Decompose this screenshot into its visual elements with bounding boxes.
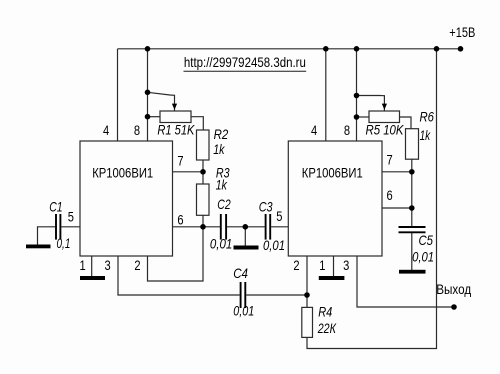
svg-text:+15В: +15В (449, 24, 475, 40)
node R1 left (145, 114, 151, 120)
wire R4 bottom to +15V riser (307, 49, 437, 349)
svg-text:3: 3 (105, 257, 111, 273)
wire R6 bottom lead / pin7 to pin6 node to C5 (411, 159, 413, 226)
wire IC2 pin3 to output (357, 256, 454, 307)
resistor R2 1k (197, 126, 229, 160)
svg-text:7: 7 (177, 153, 183, 169)
svg-text:R1 51K: R1 51K (157, 122, 195, 138)
svg-text:R6: R6 (420, 109, 435, 125)
wire IC1 pin3 to C4 (118, 256, 240, 295)
svg-text:2: 2 (293, 257, 299, 273)
svg-text:0,1: 0,1 (57, 235, 71, 251)
svg-text:6: 6 (387, 187, 393, 203)
node C4 R4 pin2 (304, 292, 310, 298)
wire C5 bottom to ground (411, 233, 413, 271)
wire C1 to ground (38, 227, 56, 245)
svg-text:0,01: 0,01 (263, 237, 285, 253)
svg-text:8: 8 (134, 122, 140, 138)
wire IC1 pin5 to C1 (61, 226, 80, 228)
wire IC1 pin8 to rail (147, 49, 149, 141)
node output terminal (451, 304, 457, 310)
wire C2 to C3 (227, 226, 265, 228)
svg-text:1k: 1k (213, 141, 225, 157)
wire IC1 pin7 (173, 171, 204, 173)
svg-text:0,01: 0,01 (210, 235, 232, 251)
svg-text:C2: C2 (217, 196, 231, 212)
wire R5 wiper (357, 96, 385, 111)
node rail-pin4 IC2 (323, 46, 329, 52)
wire R5 right lead to R6 (400, 117, 412, 129)
wire R2 to R3 (202, 160, 204, 184)
svg-text:22К: 22К (317, 320, 337, 336)
wire IC1 pin2 tie to pin6 node (148, 227, 204, 281)
svg-text:R2: R2 (214, 126, 229, 142)
svg-text:1: 1 (319, 257, 325, 273)
wire IC2 pin1 to ground (333, 256, 335, 276)
svg-text:1k: 1k (420, 127, 431, 143)
wire R5 left lead (357, 116, 370, 118)
node R5 wiper tap (354, 93, 360, 99)
wire IC2 pin7 (382, 171, 412, 173)
resistor R4 22K (302, 304, 337, 338)
svg-text:4: 4 (311, 122, 317, 138)
svg-text:1k: 1k (216, 176, 228, 192)
svg-text:2: 2 (134, 257, 140, 273)
wire mid ground stub (244, 227, 246, 246)
node IC1 pin6 R3 (200, 224, 206, 230)
timer U1 box КР1006ВИ1 (80, 141, 173, 256)
timer U2 box КР1006ВИ1 (288, 141, 382, 256)
ground C1 (26, 245, 51, 249)
node mid ground (243, 224, 249, 230)
svg-text:0,01: 0,01 (233, 303, 254, 319)
capacitor C2 0,01 (210, 196, 232, 252)
capacitor C3 0,01 (259, 198, 285, 253)
svg-text:C3: C3 (259, 198, 273, 214)
wire IC1 pin1 to ground (91, 256, 93, 276)
wire IC2 pin8 to rail (356, 49, 358, 141)
wire IC2 pin2 (306, 256, 308, 307)
wire R3 bottom lead (202, 215, 204, 227)
svg-text:7: 7 (387, 152, 393, 168)
ground IC2 pin1 (319, 276, 345, 280)
resistor R6 1k (406, 109, 435, 160)
node IC2 pin6 C5 (409, 205, 415, 211)
ground C5 (399, 270, 426, 274)
svg-text:КР1006ВИ1: КР1006ВИ1 (92, 165, 153, 181)
svg-text:C1: C1 (49, 198, 62, 214)
wire IC1 pin4 to rail (117, 49, 119, 141)
potentiometer R5 10K (366, 104, 405, 138)
ground IC1 pin1 (80, 276, 105, 280)
wire R1 left lead (148, 116, 161, 118)
svg-text:C5: C5 (419, 232, 434, 248)
svg-text:Выход: Выход (436, 281, 471, 297)
capacitor C4 0,01 (233, 265, 254, 319)
node R5 left (354, 114, 360, 120)
capacitor C1 0,1 (49, 198, 70, 251)
svg-text:3: 3 (343, 257, 349, 273)
wire +15V top rail (118, 48, 461, 50)
node rail-R4 riser (434, 46, 440, 52)
wire R1 wiper (148, 92, 175, 111)
url caption (184, 54, 307, 71)
svg-text:5: 5 (276, 208, 282, 224)
svg-text:КР1006ВИ1: КР1006ВИ1 (302, 165, 363, 181)
wire C3 to IC2 pin5 (271, 226, 288, 228)
svg-text:1: 1 (80, 257, 86, 273)
node rail-pin8 IC2 (354, 46, 360, 52)
node +15V terminal (458, 46, 464, 52)
wire IC2 pin4 to rail (325, 49, 327, 141)
ground between C2 and C3 (234, 246, 259, 250)
wire C4 to R4 node (246, 294, 307, 296)
potentiometer R1 51K (157, 104, 195, 138)
svg-text:R4: R4 (318, 304, 332, 320)
svg-text:R5 10K: R5 10K (366, 122, 405, 138)
node IC1 pin7 R2-R3 (200, 169, 206, 175)
svg-text:8: 8 (344, 122, 350, 138)
svg-text:C4: C4 (233, 265, 248, 281)
svg-text:http://299792458.3dn.ru: http://299792458.3dn.ru (184, 54, 306, 70)
resistor R3 1k (197, 164, 230, 215)
svg-text:6: 6 (177, 212, 183, 228)
capacitor C5 0,01 (399, 227, 435, 265)
svg-text:5: 5 (68, 209, 74, 225)
wire R1 right lead to R2 (191, 117, 203, 130)
node rail-pin8 IC1 (145, 46, 151, 52)
node IC2 pin7 R6 (409, 169, 415, 175)
wire IC2 pin6 (382, 207, 412, 209)
svg-text:4: 4 (103, 122, 109, 138)
svg-text:0,01: 0,01 (412, 249, 434, 265)
node R1 wiper tap (145, 90, 151, 96)
wire IC1 pin6 to C2 (173, 226, 221, 228)
